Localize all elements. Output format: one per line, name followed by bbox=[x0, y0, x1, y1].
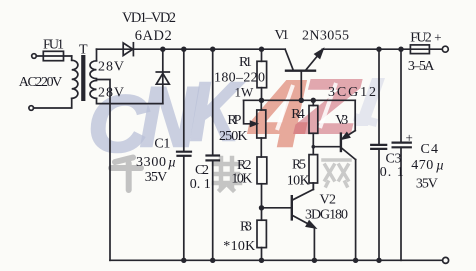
transformer T primary winding bbox=[72, 60, 78, 98]
svg-text:+: + bbox=[434, 30, 441, 45]
svg-text:1W: 1W bbox=[235, 85, 255, 100]
svg-text:V3: V3 bbox=[335, 113, 348, 128]
wire bbox=[71, 56, 73, 60]
svg-text:35V: 35V bbox=[416, 177, 438, 192]
watermark white slashes bbox=[277, 83, 336, 130]
wire top rail right bbox=[322, 48, 442, 50]
transistor V3 bbox=[341, 100, 356, 260]
svg-text:R1: R1 bbox=[239, 55, 252, 70]
svg-text:VD1–VD2: VD1–VD2 bbox=[122, 10, 176, 26]
node C4 top junction bbox=[398, 47, 403, 52]
svg-text:10K: 10K bbox=[287, 174, 310, 189]
transistor V2 bbox=[292, 183, 315, 260]
svg-text:FU1: FU1 bbox=[43, 38, 64, 53]
wire RP wiper bbox=[244, 100, 250, 124]
svg-text:*10K: *10K bbox=[223, 239, 255, 254]
watermark pale Z fragment right bbox=[353, 78, 385, 127]
watermark char qian bbox=[111, 158, 141, 191]
node C3 bottom junction bbox=[376, 258, 381, 263]
svg-text:µ: µ bbox=[436, 159, 444, 174]
diode VD1 bbox=[123, 43, 133, 56]
transformer secondary top winding bbox=[90, 61, 97, 79]
node C1 bottom junction bbox=[181, 258, 186, 263]
svg-text:0. 1: 0. 1 bbox=[380, 165, 404, 180]
terminal input bottom bbox=[29, 106, 34, 111]
wire bbox=[34, 98, 72, 108]
transformer core bbox=[81, 55, 85, 101]
svg-text:35V: 35V bbox=[145, 170, 168, 185]
terminal output bottom bbox=[443, 257, 449, 263]
resistor R1 bbox=[257, 49, 267, 100]
svg-text:RP: RP bbox=[227, 113, 241, 128]
resistor R5 bbox=[309, 155, 318, 190]
wire V2 base bbox=[262, 207, 292, 209]
wire bbox=[36, 55, 71, 57]
svg-text:3–5A: 3–5A bbox=[408, 59, 435, 74]
svg-text:C2: C2 bbox=[195, 163, 209, 178]
node R3 bottom junction bbox=[259, 258, 264, 263]
fuse FU2 bbox=[410, 45, 429, 54]
svg-text:3DG180: 3DG180 bbox=[305, 208, 348, 223]
node VD1-VD2 cathode junction bbox=[160, 47, 165, 52]
svg-text:V2: V2 bbox=[320, 193, 337, 208]
resistor R4 bbox=[309, 100, 318, 154]
transformer secondary bottom winding bbox=[90, 81, 97, 99]
terminal output top bbox=[442, 46, 448, 52]
svg-text:28V: 28V bbox=[98, 86, 124, 101]
svg-text:6AD2: 6AD2 bbox=[135, 28, 172, 44]
svg-text:R4: R4 bbox=[291, 107, 305, 122]
capacitor C2 bbox=[207, 49, 220, 260]
RP wiper arrow bbox=[251, 122, 257, 127]
node R4-R5 junction bbox=[312, 145, 316, 149]
wire V3 base bbox=[313, 146, 340, 148]
fuse FU1 bbox=[43, 51, 63, 60]
svg-text:T: T bbox=[79, 43, 88, 58]
svg-text:+: + bbox=[406, 130, 413, 145]
node R1 top junction bbox=[259, 47, 264, 52]
resistor R2 bbox=[257, 157, 267, 220]
watermark char right bbox=[323, 160, 350, 186]
node C1 top junction bbox=[181, 47, 186, 52]
node C2 bottom junction bbox=[210, 258, 215, 263]
svg-text:AC220V: AC220V bbox=[19, 75, 63, 90]
diode VD2 bbox=[156, 49, 169, 103]
svg-text:V1: V1 bbox=[275, 28, 290, 43]
svg-text:250K: 250K bbox=[219, 129, 248, 144]
svg-text:470: 470 bbox=[411, 158, 433, 173]
transistor V1 bbox=[285, 49, 323, 100]
node C2 top junction bbox=[210, 47, 215, 52]
svg-text:28V: 28V bbox=[98, 60, 124, 75]
resistor R3 bbox=[257, 220, 266, 260]
watermark char middle bbox=[214, 158, 240, 190]
svg-text:R3: R3 bbox=[240, 219, 252, 234]
svg-text:C1: C1 bbox=[154, 137, 170, 152]
svg-text:µ: µ bbox=[168, 156, 176, 171]
capacitor C4 bbox=[393, 49, 411, 260]
svg-text:C4: C4 bbox=[421, 142, 439, 157]
node R4 top junction bbox=[311, 98, 316, 103]
svg-text:R5: R5 bbox=[292, 157, 306, 172]
node R1-RP junction bbox=[259, 98, 264, 103]
node R2-R3 junction bbox=[259, 205, 264, 210]
svg-text:3300: 3300 bbox=[136, 155, 166, 170]
wire center tap bbox=[97, 80, 111, 261]
svg-text:0. 1: 0. 1 bbox=[190, 177, 211, 192]
wire top rail left bbox=[97, 48, 286, 50]
wire bottom rail bbox=[110, 259, 443, 261]
svg-text:FU2: FU2 bbox=[410, 31, 432, 46]
wire secondary bottom to VD2 bbox=[97, 98, 163, 103]
capacitor C1 bbox=[177, 49, 191, 260]
svg-text:180–220: 180–220 bbox=[214, 71, 265, 86]
node V2 emitter junction bbox=[312, 258, 317, 263]
node V3 collector junction bbox=[353, 258, 358, 263]
terminal input top bbox=[32, 54, 37, 59]
node V1 base junction bbox=[299, 98, 304, 103]
wire secondary top stub bbox=[96, 49, 98, 61]
wire base node horizontal bbox=[244, 99, 356, 101]
svg-text:2N3055: 2N3055 bbox=[302, 29, 349, 44]
svg-text:10K: 10K bbox=[231, 171, 252, 186]
capacitor C3 bbox=[371, 49, 386, 260]
potentiometer RP bbox=[257, 100, 266, 157]
node C3 top junction bbox=[376, 47, 381, 52]
